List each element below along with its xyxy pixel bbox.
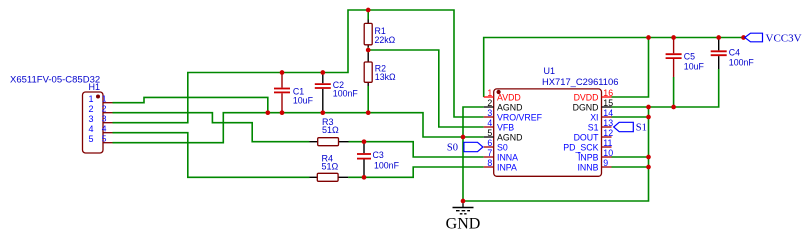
svg-text:S0: S0 xyxy=(447,142,458,153)
svg-text:GND: GND xyxy=(446,216,481,233)
svg-text:13: 13 xyxy=(603,118,613,128)
svg-text:AGND: AGND xyxy=(497,133,522,143)
svg-text:4: 4 xyxy=(102,124,107,134)
svg-text:10uF: 10uF xyxy=(293,96,314,106)
svg-text:XI: XI xyxy=(590,113,598,123)
svg-text:51Ω: 51Ω xyxy=(322,125,339,135)
svg-text:100nF: 100nF xyxy=(333,89,359,99)
svg-text:6: 6 xyxy=(487,138,492,148)
svg-text:9: 9 xyxy=(603,158,608,168)
svg-text:1: 1 xyxy=(487,88,492,98)
svg-text:AVDD: AVDD xyxy=(497,93,521,103)
svg-text:S0: S0 xyxy=(497,143,508,153)
svg-text:INPB: INPB xyxy=(578,153,599,163)
svg-text:5: 5 xyxy=(487,128,492,138)
svg-text:2: 2 xyxy=(88,104,93,114)
svg-text:22kΩ: 22kΩ xyxy=(375,35,396,45)
svg-text:C4: C4 xyxy=(729,48,740,58)
svg-text:U1: U1 xyxy=(544,66,556,76)
svg-text:DVDD: DVDD xyxy=(574,93,599,103)
svg-text:3: 3 xyxy=(487,108,492,118)
svg-text:INNB: INNB xyxy=(577,163,598,173)
svg-text:8: 8 xyxy=(487,158,492,168)
svg-text:15: 15 xyxy=(603,98,613,108)
svg-text:S1: S1 xyxy=(636,123,647,134)
svg-text:DOUT: DOUT xyxy=(574,133,600,143)
svg-text:10: 10 xyxy=(603,148,613,158)
svg-text:VCC3V: VCC3V xyxy=(766,32,802,44)
svg-text:7: 7 xyxy=(487,148,492,158)
svg-text:X6511FV-05-C85D32: X6511FV-05-C85D32 xyxy=(10,75,100,86)
svg-text:INPA: INPA xyxy=(497,163,517,173)
svg-text:1: 1 xyxy=(102,94,107,104)
svg-text:10uF: 10uF xyxy=(684,62,705,72)
svg-text:VRO/VREF: VRO/VREF xyxy=(497,113,543,123)
svg-text:5: 5 xyxy=(88,134,93,144)
svg-text:100nF: 100nF xyxy=(729,58,755,68)
svg-text:VFB: VFB xyxy=(497,123,514,133)
svg-text:S1: S1 xyxy=(588,123,599,133)
svg-text:C3: C3 xyxy=(373,150,384,160)
svg-text:DGND: DGND xyxy=(573,103,599,113)
svg-text:H1: H1 xyxy=(89,82,101,92)
svg-text:12: 12 xyxy=(603,128,613,138)
svg-text:51Ω: 51Ω xyxy=(322,162,339,172)
svg-text:11: 11 xyxy=(603,138,612,148)
svg-text:13kΩ: 13kΩ xyxy=(375,72,396,82)
svg-text:HX717_C2961106: HX717_C2961106 xyxy=(542,76,618,87)
svg-text:3: 3 xyxy=(88,114,93,124)
svg-text:2: 2 xyxy=(102,104,107,114)
svg-text:4: 4 xyxy=(88,124,93,134)
svg-text:INNA: INNA xyxy=(497,153,518,163)
svg-text:4: 4 xyxy=(487,118,492,128)
svg-text:1: 1 xyxy=(88,94,93,104)
svg-text:100nF: 100nF xyxy=(374,161,400,171)
svg-text:5: 5 xyxy=(102,134,107,144)
svg-text:16: 16 xyxy=(603,88,613,98)
svg-text:2: 2 xyxy=(487,98,492,108)
svg-text:C5: C5 xyxy=(684,52,695,62)
svg-text:14: 14 xyxy=(603,108,613,118)
svg-text:3: 3 xyxy=(102,114,107,124)
svg-text:AGND: AGND xyxy=(497,103,522,113)
svg-text:PD_SCK: PD_SCK xyxy=(563,143,598,153)
